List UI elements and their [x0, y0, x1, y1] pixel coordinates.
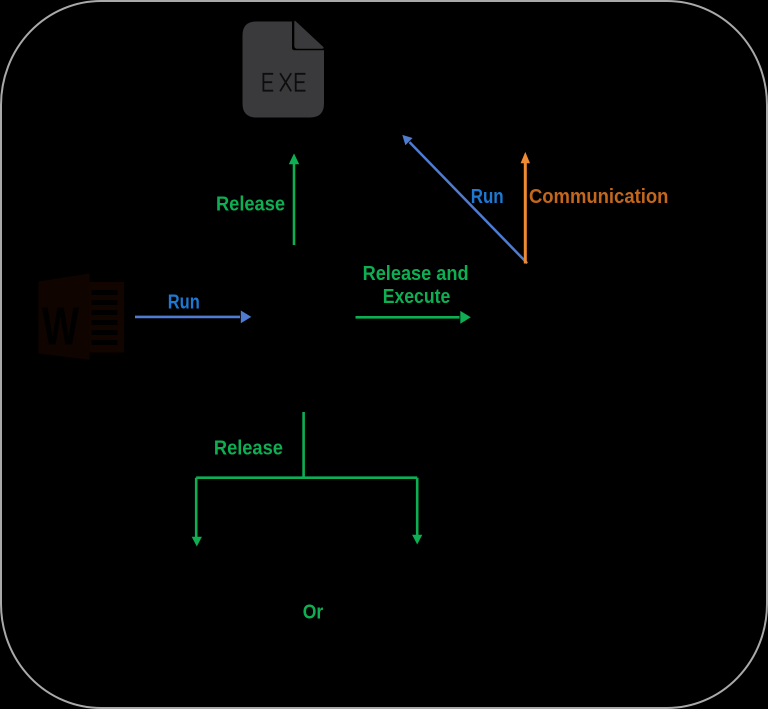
exe file icon: [243, 21, 325, 118]
svg-text:Release and: Release and: [363, 263, 469, 285]
svg-text:W: W: [42, 297, 80, 358]
orange up arrow: Communication: [521, 152, 530, 264]
svg-text:Release: Release: [214, 438, 283, 460]
svg-text:Communication: Communication: [529, 186, 669, 208]
svg-text:Or: Or: [303, 602, 324, 624]
word document icon (very dark): [39, 274, 125, 360]
blue diagonal arrow: Run (up-left): [402, 135, 527, 263]
svg-text:Run: Run: [471, 186, 504, 208]
svg-text:Release: Release: [216, 194, 285, 216]
svg-text:Run: Run: [168, 292, 200, 314]
svg-text:Execute: Execute: [383, 286, 451, 308]
blue right arrow: Run (word -> center): [135, 311, 251, 324]
green up arrow: Release (to EXE): [289, 153, 299, 245]
green right arrow: Release and Execute: [356, 311, 471, 324]
green fork: Release (down, splits left/right): [192, 412, 423, 547]
